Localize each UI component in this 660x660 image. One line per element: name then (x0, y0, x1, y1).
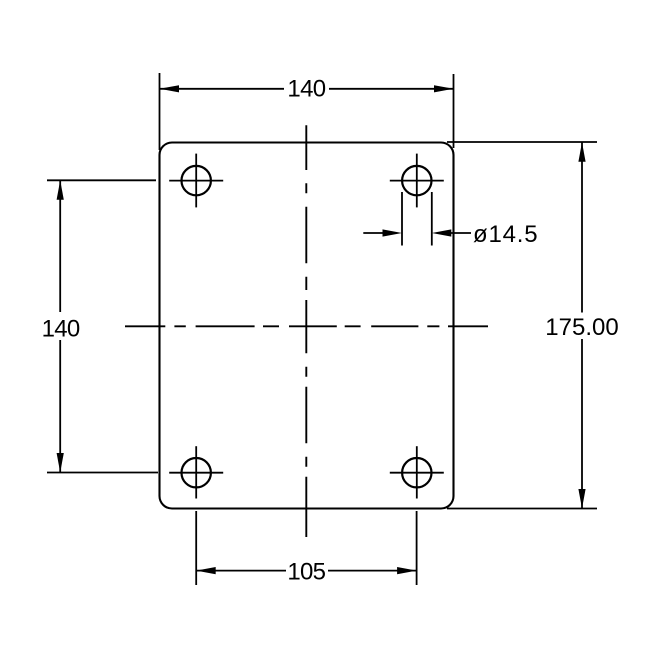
left dim extension line bottom (47, 472, 158, 474)
top dim line 140 (160, 88, 284, 90)
hole bottom-left circle (182, 458, 211, 487)
hole top-left circle (182, 166, 211, 195)
left dim extension line top (47, 179, 156, 181)
hole bottom-right circle (402, 458, 431, 487)
hole dia leader left (363, 232, 384, 234)
left dim arrow up (57, 180, 64, 200)
left dim arrow down (57, 453, 64, 473)
right dim arrow up (578, 142, 585, 162)
top dim arrow left (160, 85, 180, 92)
svg-text:140: 140 (42, 315, 80, 342)
svg-text:140: 140 (287, 76, 325, 103)
hole dia leader right (450, 232, 471, 234)
top dim extension line right (453, 74, 455, 148)
bottom dim extension line right (416, 511, 418, 585)
svg-text:ø14.5: ø14.5 (473, 221, 538, 248)
hole dia extension line left (401, 192, 403, 246)
top dim extension line left (159, 73, 161, 150)
horizontal center line (125, 325, 488, 327)
vertical center line (305, 125, 307, 537)
bottom dim extension line left (195, 511, 197, 585)
svg-text:105: 105 (287, 559, 325, 586)
bottom dim arrow left (196, 567, 216, 574)
svg-text:175.00: 175.00 (545, 314, 618, 341)
right dim extension line bottom (447, 508, 597, 510)
right dim extension line top (447, 141, 597, 143)
hole top-left crosshair (169, 180, 223, 182)
plate outline (rounded rectangle) (160, 143, 454, 509)
hole dia extension line right (431, 192, 433, 246)
bottom dim line 105 (196, 570, 286, 572)
hole top-right crosshair (390, 180, 444, 182)
right dim line 175.00 (581, 142, 583, 312)
top dim arrow right (434, 85, 454, 92)
hole bottom-left crosshair (169, 472, 223, 474)
hole bottom-right crosshair (390, 472, 444, 474)
right dim arrow down (578, 489, 585, 509)
hole top-right circle (402, 166, 431, 195)
bottom dim arrow right (397, 567, 417, 574)
left dim line 140 (59, 181, 61, 313)
